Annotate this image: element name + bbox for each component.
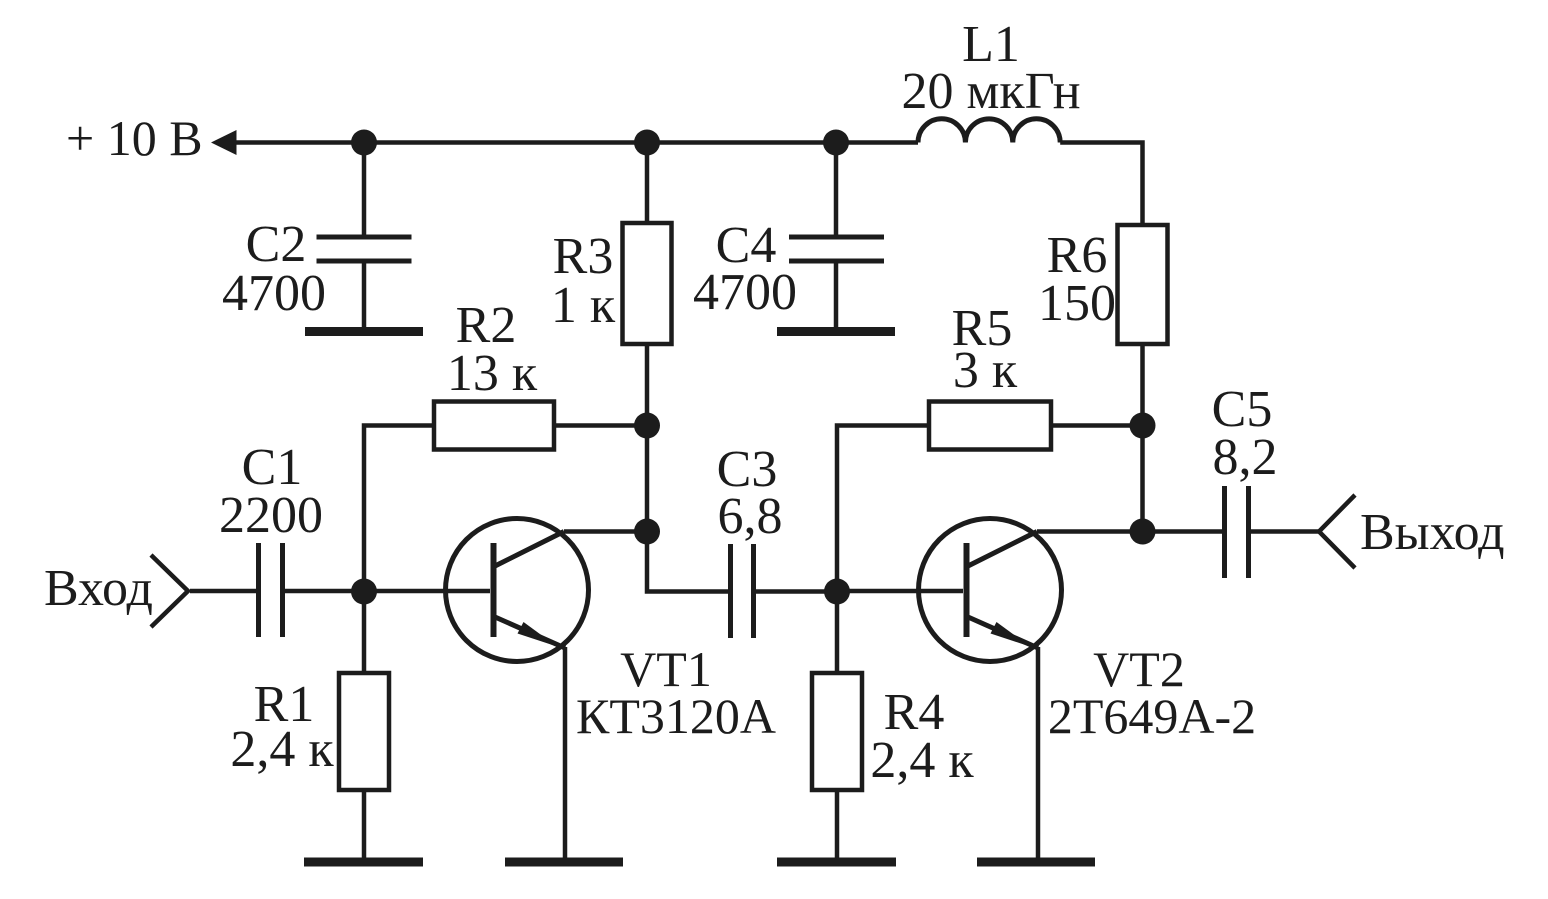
label R1	[254, 676, 315, 733]
node R2/R3 junction	[634, 413, 660, 439]
svg-text:4700: 4700	[222, 265, 326, 322]
label 3 k	[953, 342, 1018, 399]
node R5/R6 junction	[1130, 413, 1156, 439]
inductor L1	[918, 119, 1060, 143]
capacitor C5	[1225, 486, 1249, 578]
label 2T649A-2	[1048, 688, 1256, 744]
label 6,8	[718, 488, 783, 545]
svg-text:13 к: 13 к	[447, 345, 538, 402]
label C1	[242, 439, 303, 496]
wire input to C1	[190, 589, 256, 594]
power arrow	[211, 130, 237, 155]
svg-text:КТ3120А: КТ3120А	[576, 688, 776, 744]
wire R5 right lead	[1051, 423, 1142, 428]
wire VT2 collector	[1037, 529, 1142, 534]
node collector VT1	[634, 519, 660, 545]
resistor R4	[812, 673, 862, 790]
wire C5 to output	[1251, 529, 1319, 534]
wire output node to C5	[1142, 529, 1222, 534]
node junction C4 on rail	[823, 130, 849, 156]
label R4	[884, 684, 945, 741]
svg-text:4700: 4700	[693, 264, 797, 321]
wire R2 left lead	[364, 426, 434, 592]
label R5	[952, 300, 1013, 357]
ground VT1	[505, 858, 623, 867]
ground C4	[777, 327, 895, 336]
wire C3 to VT2 base node	[756, 589, 837, 594]
svg-text:3 к: 3 к	[953, 342, 1018, 399]
label output	[1360, 504, 1505, 561]
label VT1	[620, 641, 712, 697]
resistor R1	[339, 673, 389, 790]
label 8,2	[1213, 429, 1278, 486]
wire base node to VT1 base	[364, 589, 490, 594]
node junction C2 on rail	[351, 130, 377, 156]
wire rail to C2	[362, 143, 367, 238]
node VT2 base	[824, 579, 850, 605]
resistor R3	[623, 223, 672, 344]
svg-text:8,2: 8,2	[1213, 429, 1278, 486]
input connector	[151, 555, 188, 627]
svg-text:Вход: Вход	[44, 560, 153, 617]
label VT2	[1093, 641, 1185, 697]
output connector	[1319, 495, 1355, 568]
svg-text:2200: 2200	[219, 487, 323, 544]
resistor R2	[434, 402, 554, 450]
svg-text:6,8: 6,8	[718, 488, 783, 545]
wire R2 right lead	[554, 423, 647, 428]
transistor VT1	[446, 519, 589, 662]
wire VT1 emitter to ground	[563, 647, 568, 858]
label +10 V	[66, 110, 203, 166]
label 150	[1038, 275, 1116, 332]
label L1	[962, 16, 1020, 73]
wire R5 node to output node	[1140, 426, 1145, 532]
label 1 k	[551, 277, 616, 334]
wire base node to R1	[362, 591, 367, 673]
resistor R5	[929, 402, 1051, 450]
wire base node to VT2 base	[837, 589, 963, 594]
transistor VT2	[919, 519, 1062, 662]
node junction R3 on rail	[634, 130, 660, 156]
svg-text:+ 10 В: + 10 В	[66, 110, 203, 166]
wire rail to R3	[645, 143, 650, 224]
wire R1 to ground	[362, 790, 367, 858]
ground R1	[304, 858, 423, 867]
label C3	[717, 441, 778, 498]
wire R3 to node	[645, 344, 650, 425]
wire C2 to ground	[362, 261, 367, 329]
wire VT2 emitter to ground	[1036, 647, 1041, 858]
label C2	[246, 216, 307, 273]
svg-text:150: 150	[1038, 275, 1116, 332]
capacitor C3	[731, 544, 754, 638]
svg-text:20 мкГн: 20 мкГн	[901, 63, 1080, 120]
wire C4 to ground	[834, 261, 839, 329]
label 2200	[219, 487, 323, 544]
svg-text:Выход: Выход	[1360, 504, 1505, 561]
label 2,4 k (R1)	[230, 721, 334, 778]
ground R4	[777, 858, 896, 867]
label R3	[553, 228, 614, 285]
wire L1 to R6 corner	[1060, 143, 1142, 226]
label KT3120A	[576, 688, 776, 744]
ground VT2	[977, 858, 1095, 867]
svg-text:2Т649А-2: 2Т649А-2	[1048, 688, 1256, 744]
wire rail to C4	[834, 143, 839, 238]
wire VT1 collector	[564, 529, 647, 534]
wire R6 to R5 node	[1140, 344, 1145, 425]
ground C2	[305, 327, 423, 336]
label 4700 (C4)	[693, 264, 797, 321]
wire power rail	[232, 140, 918, 145]
label R6	[1047, 227, 1108, 284]
resistor R6	[1118, 225, 1168, 344]
wire node to collector node	[645, 426, 650, 532]
node VT1 base	[351, 579, 377, 605]
label 20 uH	[901, 63, 1080, 120]
wire R5 left lead	[837, 426, 929, 592]
svg-text:2,4 к: 2,4 к	[230, 721, 334, 778]
label R2	[456, 297, 517, 354]
label C5	[1212, 381, 1273, 438]
node output junction	[1130, 519, 1156, 545]
wire base node to R4	[835, 591, 840, 673]
wire collector node to C3	[647, 532, 728, 592]
capacitor C2	[317, 237, 412, 261]
label 2,4 k (R4)	[870, 732, 974, 789]
label C4	[716, 217, 777, 274]
capacitor C1	[259, 543, 283, 637]
label input	[44, 560, 153, 617]
capacitor C4	[789, 237, 884, 261]
label 13 k	[447, 345, 538, 402]
svg-text:2,4 к: 2,4 к	[870, 732, 974, 789]
label 4700	[222, 265, 326, 322]
wire R4 to ground	[835, 790, 840, 858]
wire C1 to base node	[285, 589, 364, 594]
svg-text:1 к: 1 к	[551, 277, 616, 334]
